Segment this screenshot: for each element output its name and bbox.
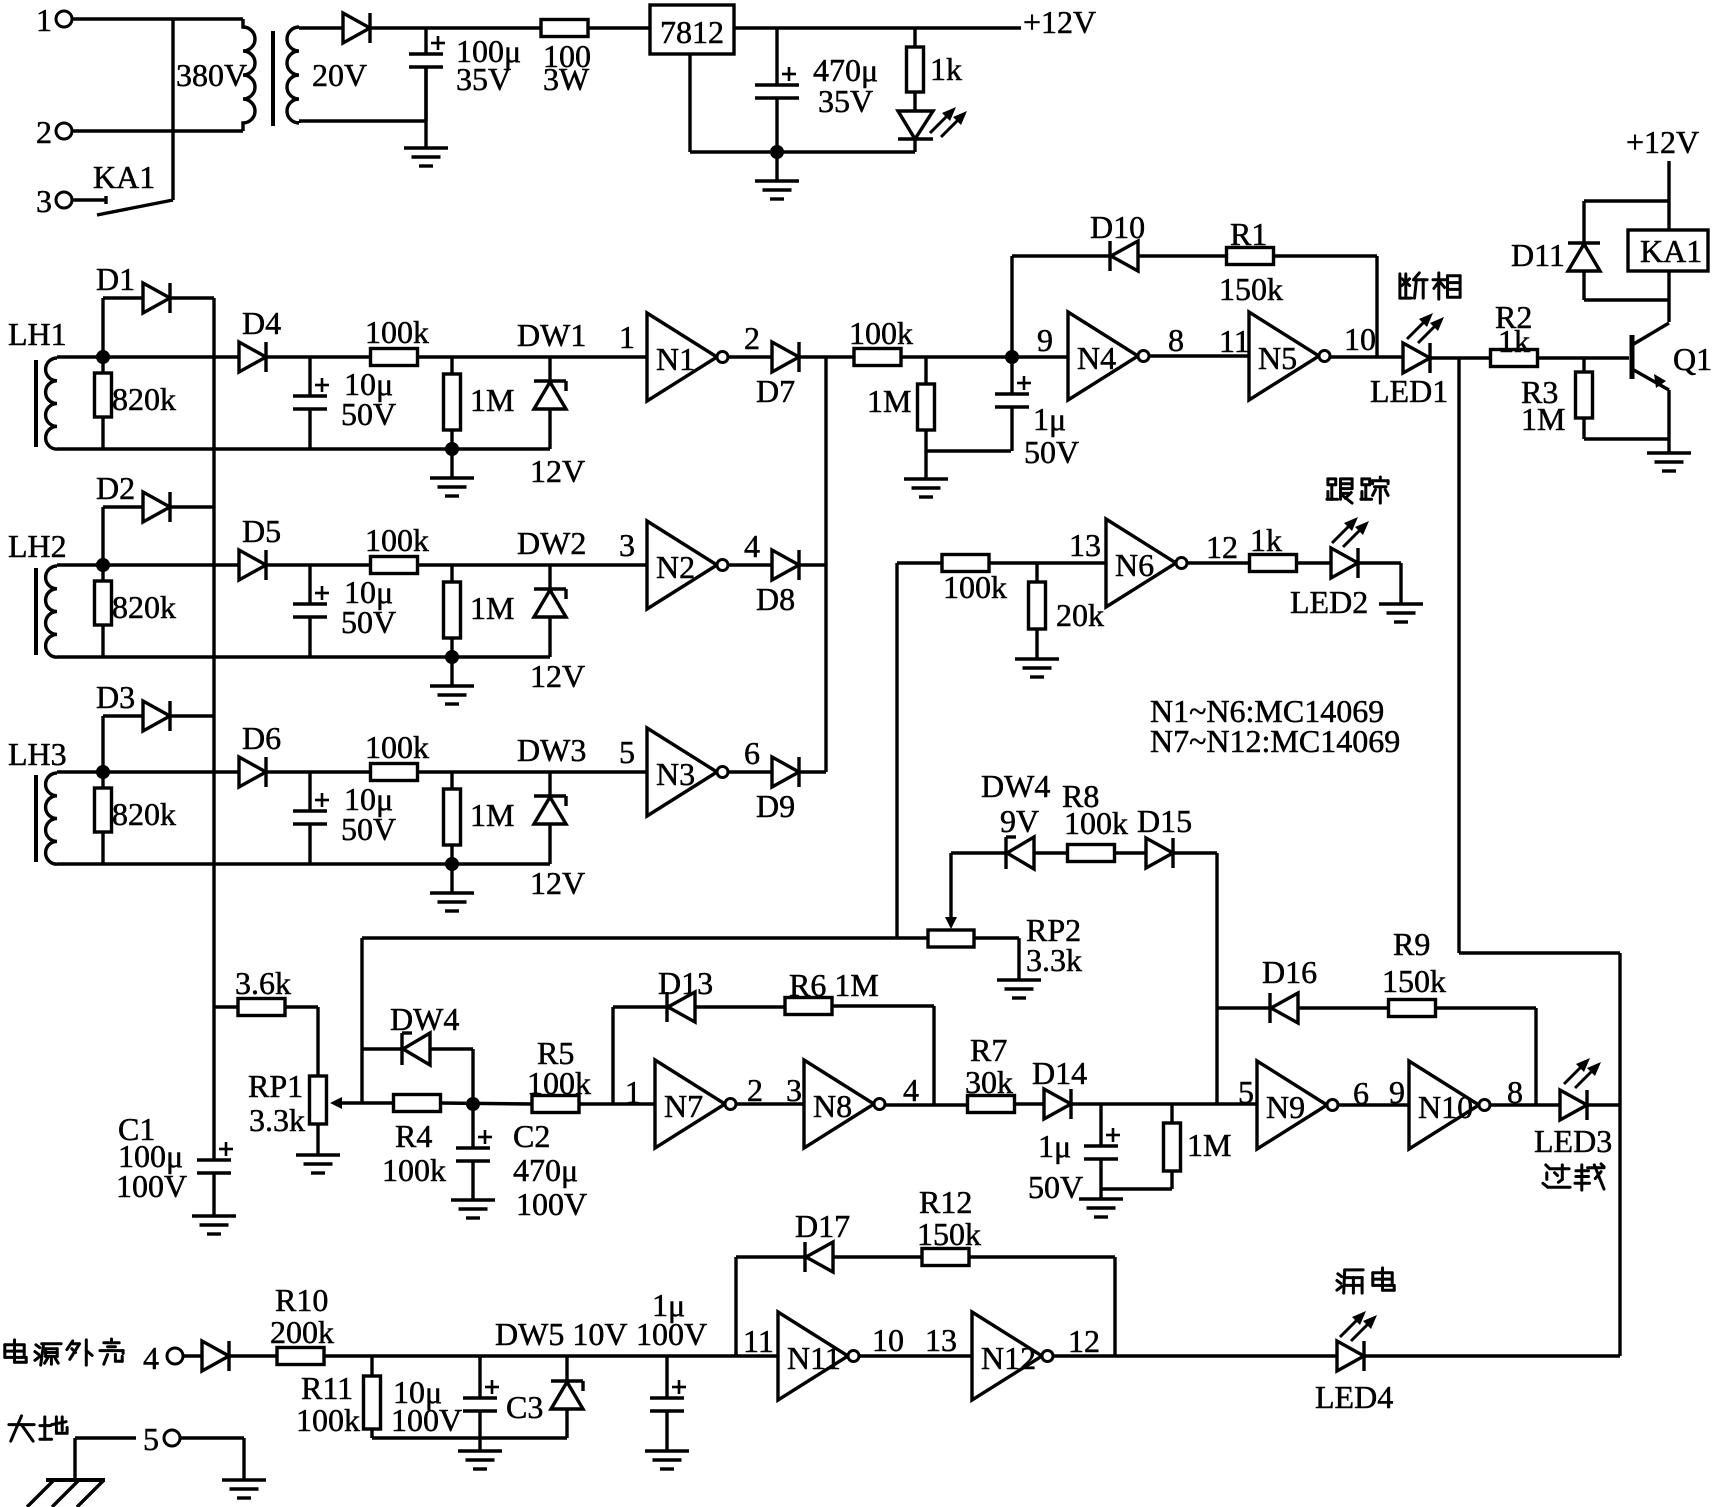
wire [57, 770, 103, 773]
resistor R9 150k [1389, 1000, 1436, 1017]
LED3 [1560, 1090, 1587, 1120]
wire [417, 355, 647, 358]
svg-text:3.3k: 3.3k [1026, 942, 1082, 978]
wire [57, 355, 103, 358]
svg-text:1k: 1k [1250, 522, 1282, 558]
resistor 820k [101, 357, 104, 373]
svg-text:3: 3 [36, 183, 52, 219]
svg-text:2: 2 [744, 320, 760, 356]
diode D6 [239, 757, 266, 787]
wire [285, 1005, 318, 1008]
svg-text:470μ: 470μ [513, 1152, 578, 1188]
svg-text:DW4: DW4 [390, 1001, 459, 1037]
svg-text:12V: 12V [530, 453, 585, 489]
wire [859, 1354, 972, 1357]
wire [611, 1007, 614, 1104]
diode [202, 1341, 229, 1371]
inverter N2 [647, 521, 717, 609]
diode D3 [101, 716, 104, 772]
terminal 2 [56, 123, 72, 139]
wire (D1-D3 bus) [212, 298, 215, 1160]
wire [1296, 561, 1331, 564]
svg-text:R12: R12 [919, 1184, 972, 1220]
ground [924, 451, 927, 479]
wire [832, 1004, 934, 1007]
svg-text:DW5 10V: DW5 10V [495, 1316, 627, 1352]
svg-text:N6: N6 [1115, 547, 1154, 583]
potentiometer RP1 wiper [340, 1101, 394, 1104]
resistor 1M [924, 357, 927, 384]
wire [688, 54, 691, 152]
wire [1138, 254, 1227, 257]
capacitor 1u/50V [1099, 1104, 1102, 1146]
resistor R7 30k [968, 1096, 1015, 1113]
wire [1459, 951, 1620, 954]
svg-text:11: 11 [1219, 323, 1250, 359]
resistor 820k [101, 565, 104, 581]
ground [1379, 602, 1423, 605]
LED power indicator [898, 111, 933, 139]
svg-text:8: 8 [1168, 322, 1184, 358]
svg-text:6: 6 [744, 735, 760, 771]
svg-text:200k: 200k [270, 1314, 334, 1350]
ground [478, 1438, 481, 1450]
zener D11 [1568, 241, 1600, 244]
LED2 [1331, 548, 1358, 578]
capacitor C2 470u/100V [471, 1104, 474, 1148]
svg-text:7812: 7812 [660, 14, 724, 50]
svg-text:LH3: LH3 [8, 736, 67, 772]
diode D2 [101, 507, 104, 565]
resistor 1M [450, 772, 453, 789]
svg-text:1M: 1M [470, 382, 514, 418]
svg-text:5: 5 [619, 734, 635, 770]
svg-text:35V: 35V [456, 61, 511, 97]
svg-text:11: 11 [743, 1323, 774, 1359]
svg-text:C2: C2 [513, 1118, 550, 1154]
wire [728, 355, 772, 358]
terminal 3 [56, 192, 72, 208]
wire [324, 1354, 778, 1357]
svg-text:LED1: LED1 [1370, 373, 1448, 409]
relay coil KA1 [1628, 230, 1708, 271]
wire [1490, 1103, 1560, 1106]
svg-text:9V: 9V [1000, 803, 1039, 839]
inverter N6 [1106, 519, 1176, 607]
capacitor 10u/50V [308, 772, 311, 811]
node LH2 [96, 558, 110, 572]
resistor 1M [450, 357, 453, 374]
svg-text:1M: 1M [1187, 1127, 1231, 1163]
svg-text:4: 4 [744, 528, 760, 564]
wire [1101, 1187, 1172, 1190]
wire [1457, 358, 1460, 953]
regulator 7812 [650, 5, 734, 54]
resistor 20k [1035, 563, 1038, 582]
zener DW4 9V [1004, 837, 1007, 869]
diode D16 [1271, 993, 1298, 1023]
wire [969, 1255, 1115, 1258]
transformer primary 380V [243, 19, 255, 131]
svg-text:D8: D8 [756, 581, 795, 617]
svg-text:D5: D5 [242, 513, 281, 549]
svg-text:13: 13 [1069, 527, 1101, 563]
inverter N12 [972, 1312, 1042, 1400]
svg-text:100k: 100k [365, 729, 429, 765]
wire [417, 563, 647, 566]
svg-text:+12V: +12V [1023, 4, 1096, 40]
potentiometer RP2 3.3k [928, 930, 974, 947]
svg-text:50V: 50V [1028, 1169, 1083, 1205]
resistor R1 150k [1227, 248, 1274, 265]
wire [1667, 161, 1670, 230]
resistor R2 1k [1491, 350, 1538, 367]
wire [1618, 953, 1621, 1356]
svg-text:D17: D17 [795, 1208, 850, 1244]
transistor Q1 [1630, 335, 1635, 379]
svg-text:1k: 1k [1498, 323, 1530, 359]
wire [974, 936, 1019, 939]
chassis ground [46, 1478, 105, 1482]
node [466, 1097, 480, 1111]
svg-text:DW3: DW3 [517, 732, 586, 768]
svg-text:100V: 100V [516, 1186, 587, 1222]
wire [901, 355, 1068, 358]
svg-text:380V: 380V [176, 57, 247, 93]
svg-text:R1: R1 [1230, 216, 1267, 252]
wire [777, 150, 915, 153]
wire [895, 563, 898, 938]
wire [579, 1102, 655, 1105]
resistor R12 150k [922, 1249, 969, 1266]
capacitor 10u/50V [308, 565, 311, 604]
node [445, 650, 459, 664]
wire (bottom rail) [57, 862, 550, 865]
svg-text:KA1: KA1 [93, 159, 155, 195]
svg-text:D4: D4 [242, 305, 281, 341]
svg-text:4: 4 [903, 1072, 919, 1108]
wire [103, 355, 239, 358]
transformer secondary 20V [287, 27, 299, 123]
svg-text:D13: D13 [658, 965, 713, 1001]
wire [613, 1005, 667, 1008]
svg-text:820k: 820k [112, 796, 176, 832]
inverter N5 [1249, 312, 1319, 400]
resistor 100k [942, 555, 989, 572]
wire [826, 355, 854, 358]
resistor R11 100k [370, 1356, 373, 1376]
wire [1667, 390, 1670, 439]
ground [450, 449, 453, 478]
ground [451, 1198, 495, 1201]
svg-text:D16: D16 [1262, 954, 1317, 990]
wire [1584, 437, 1669, 440]
wire [1667, 271, 1670, 322]
wire [171, 19, 174, 200]
inverter N8 [804, 1060, 874, 1148]
wire [1173, 851, 1217, 854]
potentiometer RP1 3.3k [310, 1076, 327, 1124]
svg-text:+12V: +12V [1626, 124, 1699, 160]
wire [1010, 256, 1013, 357]
svg-text:LED4: LED4 [1315, 1379, 1393, 1415]
ground [775, 152, 778, 181]
ground [1667, 439, 1670, 453]
wire [266, 563, 371, 566]
resistor 100k [371, 764, 418, 781]
svg-text:N11: N11 [787, 1340, 841, 1376]
transformer core [271, 31, 275, 126]
svg-text:D1: D1 [96, 261, 135, 297]
wire [951, 851, 1006, 854]
svg-text:N7~N12:MC14069: N7~N12:MC14069 [1150, 723, 1400, 759]
wire [1430, 356, 1491, 359]
svg-text:100k: 100k [527, 1065, 591, 1101]
wire [370, 26, 542, 29]
inverter N10 [1409, 1061, 1479, 1149]
svg-text:100k: 100k [296, 1402, 360, 1438]
svg-text:10: 10 [1344, 321, 1376, 357]
capacitor C3 10u/100V [478, 1356, 481, 1398]
svg-text:50V: 50V [341, 604, 396, 640]
wire [360, 938, 363, 1103]
node [445, 442, 459, 456]
wire [430, 1047, 473, 1050]
svg-text:LED2: LED2 [1290, 584, 1368, 620]
svg-text:50V: 50V [1024, 434, 1079, 470]
current transformer LH3 [46, 773, 57, 864]
wire [180, 1436, 244, 1439]
svg-text:R9: R9 [1393, 926, 1430, 962]
wire [229, 1354, 277, 1357]
resistor 820k [101, 772, 104, 788]
resistor 100k [371, 349, 418, 366]
svg-text:1: 1 [36, 2, 52, 38]
inverter N4 [1068, 312, 1138, 400]
diode D5 [239, 550, 266, 580]
wire [57, 563, 103, 566]
svg-text:12: 12 [1068, 1323, 1100, 1359]
inverter N9 [1257, 1061, 1327, 1149]
wire [183, 1354, 202, 1357]
svg-text:3.6k: 3.6k [235, 965, 291, 1001]
wire [695, 1005, 785, 1008]
diode D9 [772, 757, 799, 787]
svg-text:D6: D6 [242, 720, 281, 756]
LED1 [1403, 343, 1430, 373]
wire [734, 1257, 737, 1356]
svg-text:N12: N12 [981, 1340, 1036, 1376]
svg-text:9: 9 [1037, 322, 1053, 358]
svg-text:D3: D3 [96, 679, 135, 715]
svg-text:N4: N4 [1077, 340, 1116, 376]
svg-text:N8: N8 [813, 1088, 852, 1124]
wire [266, 355, 371, 358]
capacitor 1u/50V [1010, 357, 1013, 394]
wire [1364, 1354, 1620, 1357]
capacitor C1 100u/100V [197, 1158, 231, 1161]
resistor 1M [1170, 1104, 1173, 1123]
wire (bottom rail) [57, 447, 550, 450]
resistor R4 100k [394, 1095, 441, 1112]
svg-text:100V: 100V [636, 1316, 707, 1352]
svg-text:20k: 20k [1056, 597, 1104, 633]
current transformer LH2 [46, 566, 57, 657]
wire [1187, 561, 1250, 564]
node [770, 145, 784, 159]
inverter N7 [655, 1060, 725, 1148]
resistor R3 1M [1582, 358, 1585, 372]
resistor R8 100k [1068, 845, 1115, 862]
svg-text:5: 5 [143, 1421, 159, 1457]
wire [1587, 1103, 1620, 1106]
inverter N11 [778, 1312, 848, 1400]
svg-text:1k: 1k [930, 51, 962, 87]
label loudian [1337, 1270, 1363, 1293]
svg-text:50V: 50V [341, 396, 396, 432]
wire [1358, 561, 1401, 564]
svg-text:12: 12 [1206, 529, 1238, 565]
zener DW2 12V [548, 565, 551, 589]
wire [266, 770, 371, 773]
capacitor 10u/50V [308, 357, 311, 396]
wire [728, 770, 772, 773]
wire [926, 449, 1011, 452]
wire [885, 1103, 968, 1106]
wire [372, 1436, 567, 1439]
wire [1114, 851, 1146, 854]
wire (D7-D9 bus) [824, 357, 827, 772]
capacitor 1u/100V [665, 1356, 668, 1398]
wire [588, 26, 650, 29]
ground [450, 657, 453, 686]
svg-text:3: 3 [619, 527, 635, 563]
svg-text:13: 13 [925, 1322, 957, 1358]
label guozai [1543, 1165, 1570, 1187]
wire [734, 26, 1021, 29]
wire [1053, 1354, 1337, 1357]
label dianyuan waike [5, 1340, 26, 1362]
resistor 3.6k [214, 1005, 238, 1008]
diode D4 [239, 342, 266, 372]
svg-text:100V: 100V [116, 1168, 187, 1204]
svg-text:30k: 30k [965, 1064, 1013, 1100]
wire [1149, 354, 1249, 357]
current transformer LH1 [46, 358, 57, 449]
svg-text:D10: D10 [1090, 209, 1145, 245]
svg-text:N5: N5 [1258, 340, 1297, 376]
svg-text:N9: N9 [1266, 1089, 1305, 1125]
wire [1435, 1006, 1536, 1009]
wire [362, 1047, 402, 1050]
zener DW4 [400, 1033, 403, 1065]
svg-text:50V: 50V [341, 811, 396, 847]
svg-text:1μ: 1μ [1033, 401, 1066, 437]
wire [989, 561, 1106, 564]
label duanxiang [1400, 273, 1427, 298]
node LH3 [96, 765, 110, 779]
svg-text:1: 1 [619, 319, 635, 355]
svg-text:N3: N3 [656, 756, 695, 792]
svg-text:1M: 1M [470, 797, 514, 833]
svg-text:R4: R4 [395, 1118, 432, 1154]
wire [833, 1255, 922, 1258]
svg-text:LED3: LED3 [1534, 1123, 1612, 1159]
wire [1330, 355, 1403, 358]
svg-text:1M: 1M [1521, 401, 1565, 437]
wire [316, 1124, 319, 1155]
svg-text:3.3k: 3.3k [249, 1102, 305, 1138]
ground [404, 146, 448, 149]
svg-text:9: 9 [1389, 1074, 1405, 1110]
svg-text:100k: 100k [365, 522, 429, 558]
svg-text:100k: 100k [849, 315, 913, 351]
wire [1217, 1006, 1270, 1009]
ground [296, 1153, 340, 1156]
node 9 [1005, 350, 1019, 364]
wire [72, 198, 106, 201]
svg-text:10: 10 [872, 1322, 904, 1358]
svg-text:100V: 100V [391, 1402, 462, 1438]
wire [1071, 1102, 1257, 1105]
svg-text:1μ: 1μ [1038, 1128, 1071, 1164]
svg-text:100k: 100k [943, 569, 1007, 605]
svg-text:820k: 820k [112, 589, 176, 625]
svg-text:DW1: DW1 [517, 317, 586, 353]
ground [645, 1449, 689, 1452]
svg-text:100k: 100k [382, 1152, 446, 1188]
resistor 100k [371, 557, 418, 574]
svg-text:1M: 1M [470, 590, 514, 626]
svg-text:D7: D7 [756, 373, 795, 409]
wire (bottom rail) [57, 655, 550, 658]
svg-text:D14: D14 [1032, 1055, 1087, 1091]
svg-text:C3: C3 [506, 1389, 543, 1425]
diode D1 [101, 298, 104, 357]
svg-text:RP1: RP1 [248, 1068, 303, 1104]
diode D10 [1111, 241, 1138, 271]
svg-text:D2: D2 [96, 470, 135, 506]
svg-text:R7: R7 [970, 1032, 1007, 1068]
rectifier diode [343, 13, 370, 43]
wire [103, 563, 239, 566]
svg-text:1M: 1M [867, 383, 911, 419]
potentiometer RP2 3.3k wiper [949, 853, 952, 921]
wire [299, 26, 343, 29]
resistor 1k [1250, 555, 1297, 572]
label dadi [9, 1416, 34, 1441]
svg-text:R11: R11 [301, 1370, 353, 1406]
svg-text:3: 3 [786, 1072, 802, 1108]
diode D13 [668, 992, 695, 1022]
zener DW3 12V [548, 772, 551, 796]
svg-text:D9: D9 [756, 788, 795, 824]
svg-text:N10: N10 [1418, 1089, 1473, 1125]
svg-text:5: 5 [1238, 1074, 1254, 1110]
svg-text:D15: D15 [1137, 803, 1192, 839]
resistor 1M [450, 565, 453, 582]
diode D8 [772, 550, 799, 580]
ground [1099, 1189, 1102, 1199]
wire [799, 355, 826, 358]
wire [72, 17, 243, 20]
svg-text:20V: 20V [312, 57, 367, 93]
diode D7 [772, 342, 799, 372]
svg-text:3W: 3W [543, 61, 590, 97]
svg-text:4: 4 [143, 1340, 159, 1376]
wire [897, 561, 942, 564]
terminal 1 [56, 11, 72, 27]
